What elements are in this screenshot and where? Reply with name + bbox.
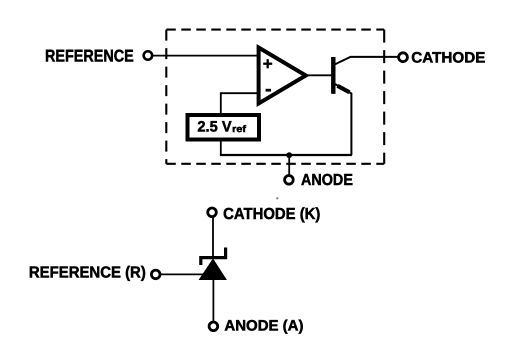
transistor Q1 base bar: [331, 57, 335, 94]
terminal REFERENCE: [144, 51, 153, 60]
op-amp - input marker: [266, 89, 271, 92]
functional block boundary: right dashed edge: [383, 30, 385, 164]
svg-text:ANODE (A): ANODE (A): [224, 317, 303, 334]
functional block boundary: bottom dashed edge: [166, 163, 384, 165]
terminal CATHODE: [399, 53, 408, 62]
junction node: [286, 152, 292, 158]
functional block boundary: left dashed edge: [165, 30, 167, 164]
symbol: zener cathode bar of D1: [201, 248, 226, 266]
wire Vref to anode rail: [220, 141, 222, 155]
functional block boundary: top dashed edge: [166, 29, 384, 31]
voltage reference block 2.5 Vref: [188, 115, 260, 140]
symbol: terminal REFERENCE (R): [151, 270, 160, 279]
symbol: terminal CATHODE (K): [208, 208, 217, 217]
svg-text:CATHODE: CATHODE: [411, 49, 485, 66]
wire - input to Vref: [221, 93, 259, 113]
svg-text:ANODE: ANODE: [301, 172, 353, 189]
symbol: cathode wire: [212, 218, 214, 257]
wire junction to anode terminal: [288, 155, 290, 176]
symbol: reference wire: [161, 273, 205, 275]
svg-text:ref: ref: [232, 124, 247, 135]
svg-text:REFERENCE: REFERENCE: [45, 47, 134, 66]
anode rail wire: [220, 154, 352, 156]
op-amp U1: [259, 48, 306, 104]
transistor Q1 emitter: [335, 84, 352, 155]
symbol: diode D1 (TL431 triangle): [200, 259, 227, 279]
wire reference to op-amp + input: [153, 55, 258, 57]
svg-text:2.5 V: 2.5 V: [197, 119, 231, 136]
svg-text:REFERENCE (R): REFERENCE (R): [29, 264, 146, 281]
wire op-amp output to transistor base: [306, 74, 332, 76]
transistor Q1 collector: [335, 57, 399, 65]
svg-text:CATHODE (K): CATHODE (K): [223, 206, 320, 223]
scan speck: [276, 197, 278, 199]
symbol: anode wire: [212, 280, 214, 322]
symbol: terminal ANODE (A): [209, 322, 218, 331]
terminal ANODE: [285, 176, 294, 185]
op-amp + input marker: [263, 59, 272, 68]
